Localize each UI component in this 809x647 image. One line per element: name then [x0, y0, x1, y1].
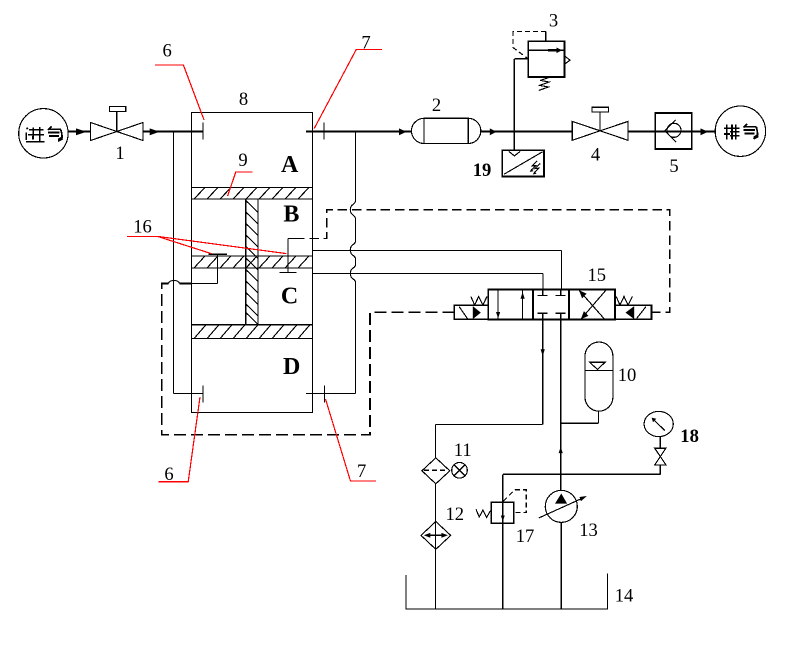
svg-text:9: 9: [238, 150, 247, 171]
svg-text:16: 16: [133, 217, 152, 238]
svg-text:1: 1: [115, 143, 124, 164]
check valve 12: [421, 522, 451, 550]
gauge shutoff valve: [655, 437, 666, 475]
valve 15 main body: [488, 289, 615, 319]
wire valve 15 pilot stubs: [449, 311, 658, 313]
cylinder 8 body: [192, 113, 313, 413]
wire valve 15 to filter line: [436, 319, 543, 457]
wire relief valve 3 inlet: [514, 59, 528, 150]
port tick bottom-left (6): [202, 386, 204, 403]
dashed feedback loop left: [180, 283, 192, 285]
relief valve 17 pilot dashed: [504, 490, 527, 513]
arrow before exhaust: [701, 128, 709, 135]
arrow after muffler 2: [490, 128, 497, 135]
relief valve 3 pilot dashed: [513, 32, 546, 59]
tap 16 right T-bar and stem: [280, 239, 297, 273]
relief valve 3 body: [528, 32, 570, 77]
red leader label 7 bottom: [326, 399, 377, 481]
red leader label 7 top: [314, 49, 382, 128]
piston rod (hatched): [246, 199, 258, 325]
svg-text:3: 3: [549, 11, 558, 32]
wire left branch vertical: [174, 132, 203, 394]
svg-text:2: 2: [432, 95, 441, 116]
red leader label 6 bottom: [159, 397, 200, 482]
accumulator 10 capsule: [585, 342, 613, 411]
svg-text:8: 8: [239, 89, 248, 110]
check valve 5: [655, 113, 691, 149]
svg-text:11: 11: [454, 440, 472, 461]
svg-text:B: B: [283, 202, 299, 228]
wire bottom-right port pipe: [306, 392, 356, 394]
arrow before muffler 2: [399, 128, 407, 135]
red leader label 9: [228, 172, 253, 196]
relief valve 3 spring: [539, 77, 550, 90]
red leader label 6 top: [127, 49, 382, 481]
svg-text:C: C: [281, 283, 298, 309]
text 进气 (hand-drawn strokes): [26, 126, 63, 141]
port tick top-right (7): [323, 123, 325, 140]
svg-text:6: 6: [163, 41, 172, 62]
svg-text:12: 12: [446, 504, 465, 525]
svg-text:6: 6: [164, 464, 173, 485]
valve 15 left pilot box: [454, 305, 488, 319]
node inlet source circle 进气: [19, 109, 68, 158]
muffler 2 capsule: [412, 118, 481, 143]
svg-text:10: 10: [618, 365, 637, 386]
wire main pipe right segments: [306, 131, 716, 133]
port tick top-left (6): [202, 123, 204, 140]
valve 15 right pilot box: [615, 305, 652, 319]
red leader label 16: [127, 236, 287, 253]
wire gauge line to pump line: [503, 473, 661, 475]
svg-text:19: 19: [473, 160, 492, 181]
svg-text:7: 7: [361, 33, 370, 54]
valve 4 shutoff: [572, 107, 628, 140]
svg-text:17: 17: [516, 526, 535, 547]
arrow after inlet: [76, 128, 708, 135]
svg-text:A: A: [281, 152, 299, 178]
port tick bottom-right (7): [324, 386, 326, 403]
valve 15 right cell crossed arrows: [579, 290, 606, 319]
wire filter to tank line: [435, 484, 437, 609]
valve 15 left cell flow arrows: [496, 289, 525, 319]
piston lower (hatched): [192, 325, 313, 339]
pump 13: [539, 490, 587, 522]
transducer 19 box: [502, 150, 544, 176]
wire chamber B line to valve 15: [312, 251, 561, 290]
text 排气 (hand-drawn strokes): [724, 124, 759, 140]
svg-text:4: 4: [591, 145, 600, 166]
svg-text:18: 18: [680, 426, 699, 447]
relief valve 17: [491, 474, 514, 609]
piston middle (hatched): [192, 256, 313, 268]
valve 1 shutoff: [91, 107, 144, 141]
filter 11: [422, 458, 467, 484]
wire pump to tank: [560, 522, 562, 609]
valve 15 right spring: [616, 297, 632, 306]
node exhaust circle 排气: [715, 106, 765, 156]
svg-text:D: D: [283, 354, 300, 380]
wire pump to valve 15 line: [560, 319, 562, 491]
svg-text:7: 7: [357, 461, 366, 482]
valve 15 left spring: [471, 297, 487, 306]
wire chamber C line to valve 15: [312, 274, 543, 290]
svg-text:5: 5: [669, 156, 678, 177]
arrow up on pump line: [559, 447, 563, 453]
tap 16 left T-bar and stem: [191, 254, 227, 283]
dashed pilot chamber B to valve 15 right: [295, 210, 670, 313]
relief valve 17 spring: [476, 509, 490, 517]
gauge 18: [644, 411, 673, 436]
svg-text:13: 13: [579, 520, 598, 541]
wire main pipe left segments: [68, 131, 203, 133]
svg-text:14: 14: [615, 586, 634, 607]
tank 14: [406, 574, 608, 610]
arrow down on filter line: [541, 349, 545, 356]
wire accumulator elbow: [561, 411, 599, 423]
arrow after valve 1: [150, 128, 160, 135]
svg-text:15: 15: [588, 265, 607, 286]
piston 9 upper (hatched): [192, 188, 313, 200]
valve 15 center cell blocked ports: [538, 289, 566, 319]
wire right branch vertical with hops: [350, 132, 355, 394]
